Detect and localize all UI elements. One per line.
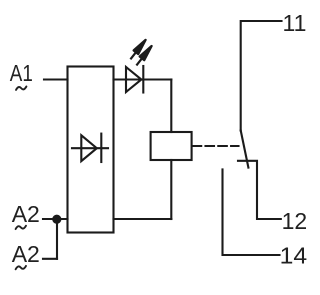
svg-text:12: 12 bbox=[282, 208, 308, 234]
svg-text:14: 14 bbox=[280, 242, 308, 268]
svg-text:A1: A1 bbox=[10, 60, 33, 86]
svg-text:A2: A2 bbox=[12, 241, 40, 267]
svg-text:11: 11 bbox=[283, 10, 307, 36]
svg-text:A2: A2 bbox=[12, 201, 40, 227]
